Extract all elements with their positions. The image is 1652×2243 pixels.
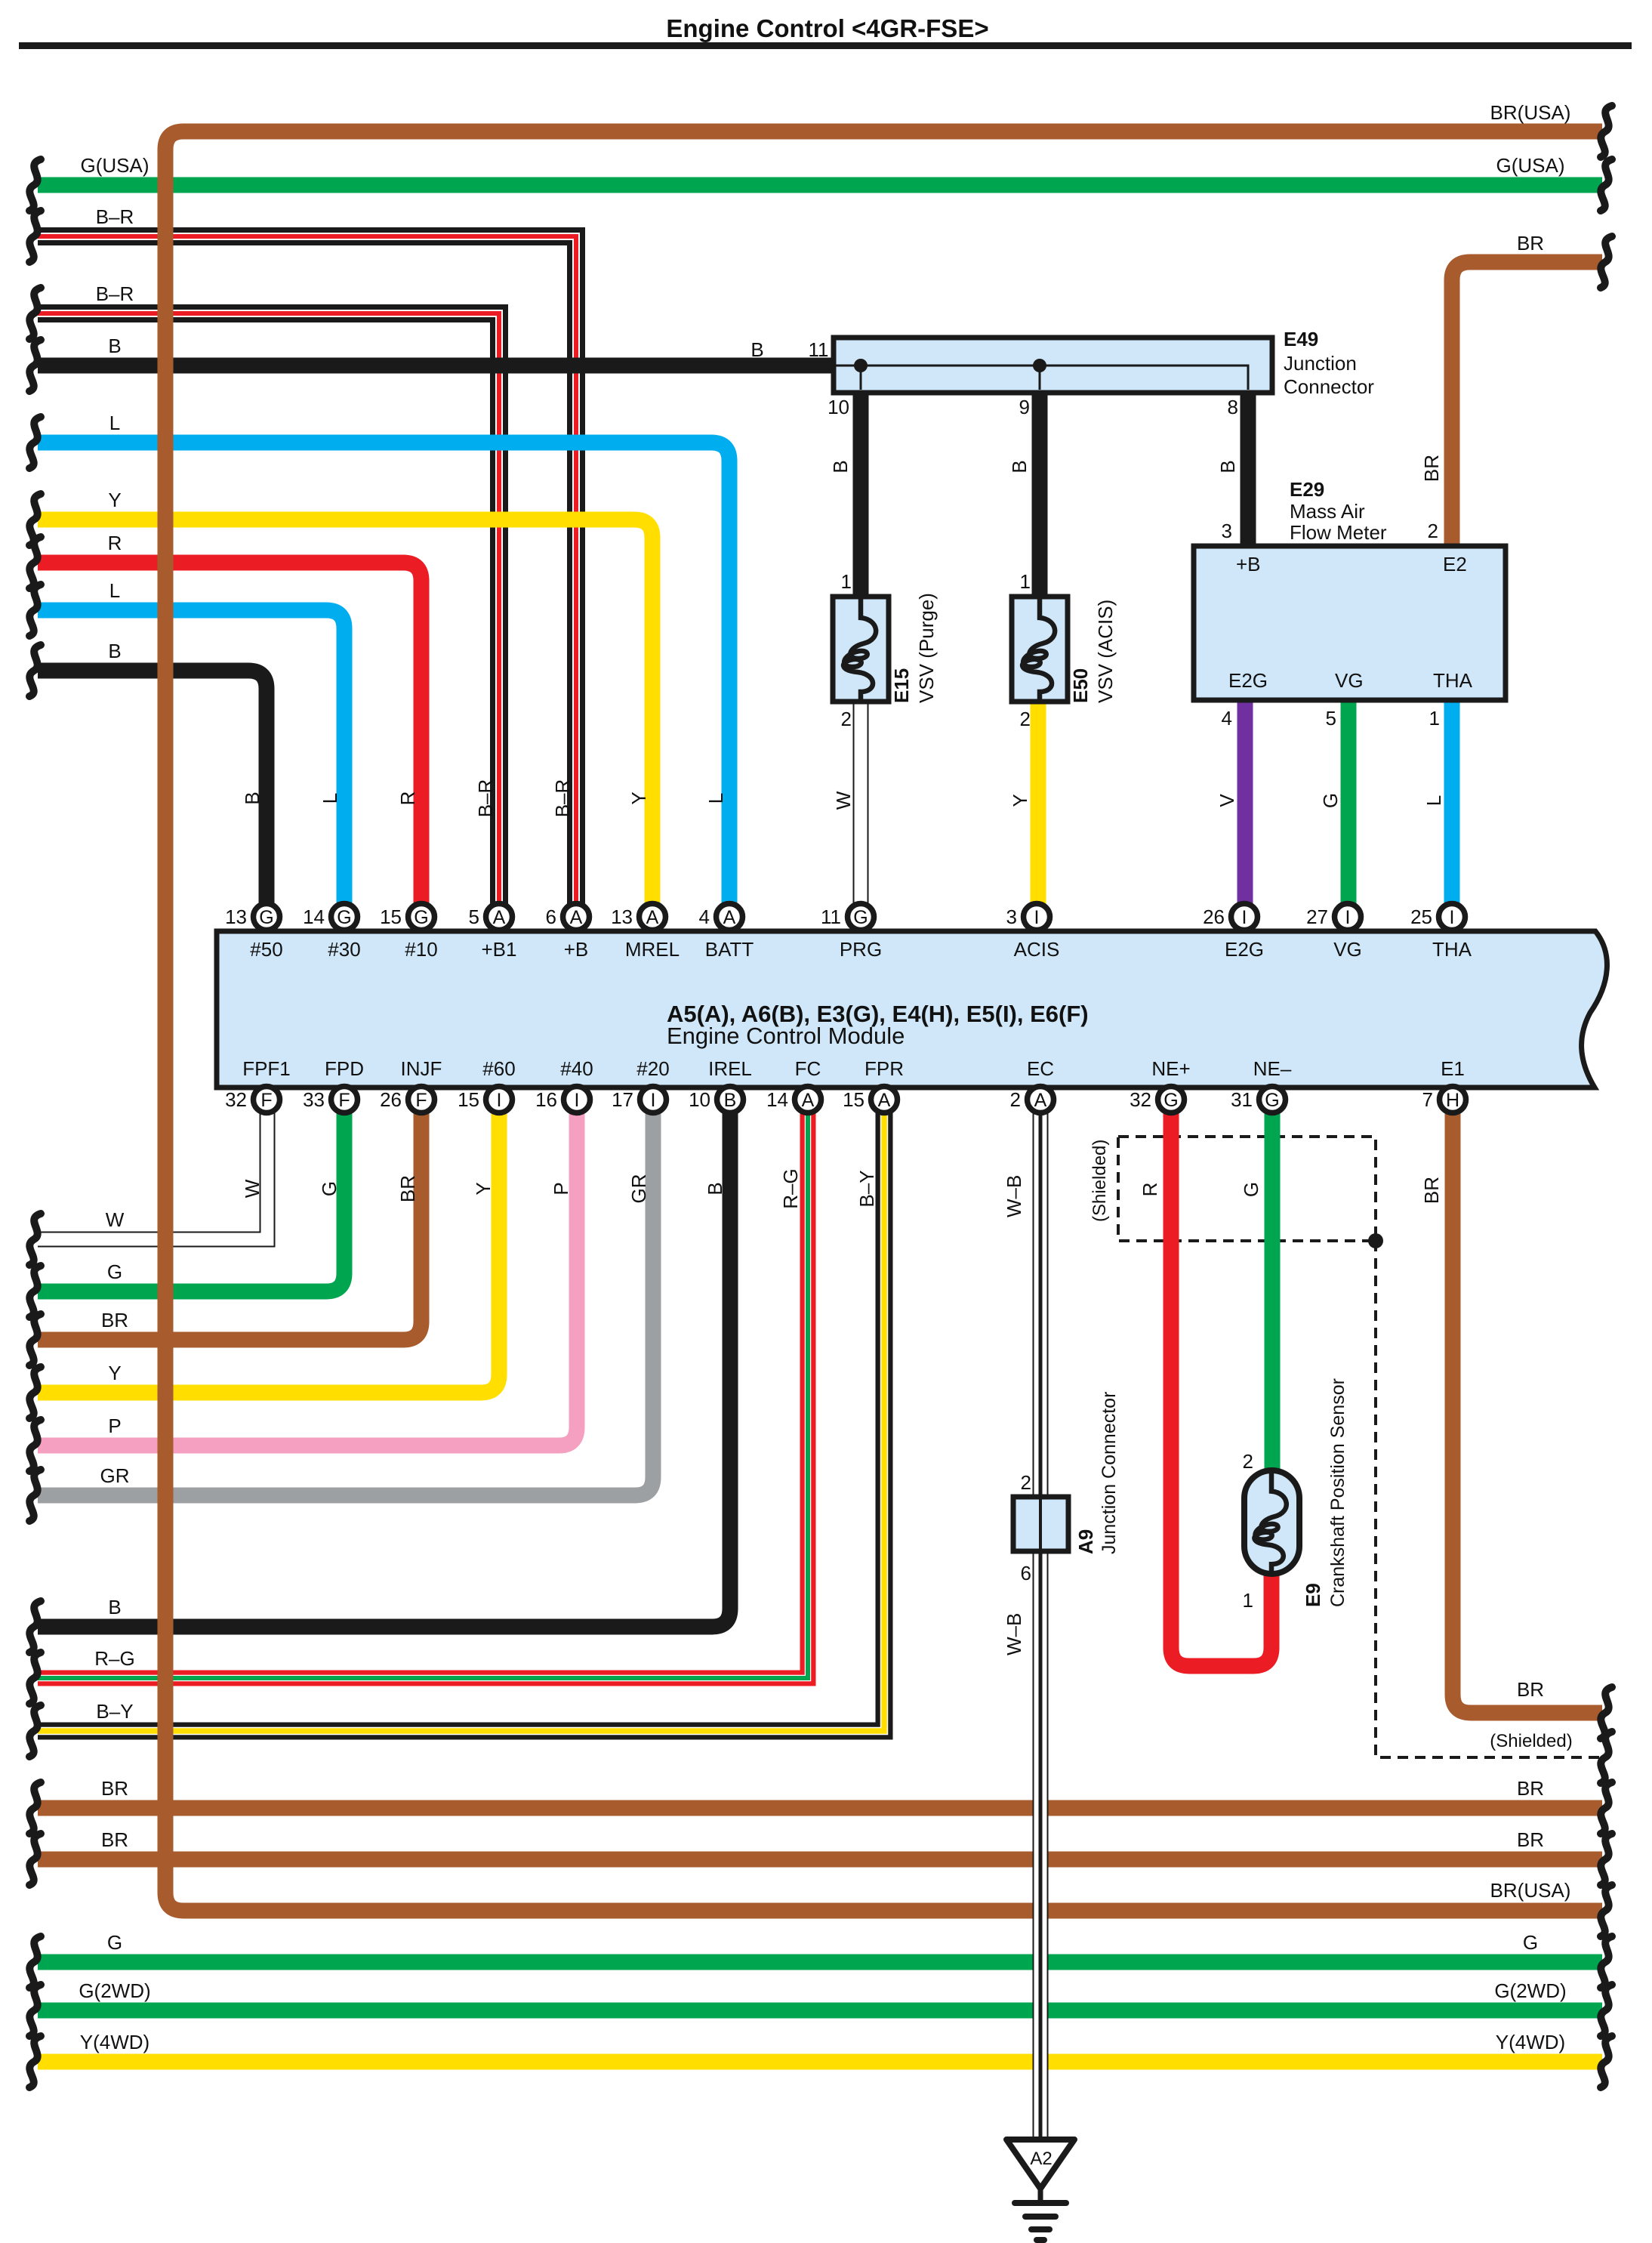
label Y left y1827	[108, 1362, 121, 1384]
VSV E15 box	[833, 597, 889, 702]
label Y left y671	[108, 489, 121, 511]
label BR wire below ECM x549	[396, 1175, 419, 1202]
svg-text:BR: BR	[101, 1309, 128, 1331]
svg-text:25: 25	[1410, 906, 1432, 928]
svg-text:1: 1	[1243, 1589, 1253, 1612]
break symbol left y2222	[29, 1652, 41, 1704]
svg-text:A: A	[570, 907, 583, 928]
svg-text:I: I	[1345, 907, 1351, 928]
svg-text:B: B	[829, 460, 852, 473]
label G(USA) right y228	[1496, 154, 1565, 177]
svg-text:3: 3	[1006, 906, 1017, 928]
break symbol left y2154	[29, 1601, 41, 1652]
label E2G in E29	[1228, 669, 1268, 692]
svg-text:B: B	[724, 1090, 737, 1111]
svg-text:P: P	[108, 1415, 121, 1437]
svg-text:B: B	[108, 1596, 121, 1618]
svg-text:IREL: IREL	[708, 1057, 752, 1080]
svg-text:2: 2	[1243, 1450, 1253, 1473]
svg-text:15: 15	[843, 1088, 865, 1111]
wire W E15 to PRG	[853, 702, 869, 904]
label E9 name	[1302, 1583, 1324, 1607]
label Y wire above ECM x1360	[1009, 794, 1031, 807]
break symbol left y1914	[29, 1420, 41, 1471]
label W wire below ECM x343	[241, 1179, 264, 1198]
svg-text:E50: E50	[1069, 668, 1092, 703]
wire B E49 pin10 to E15	[853, 388, 869, 597]
label R NE+ wire	[1139, 1183, 1161, 1197]
wire L E29 to THA	[1444, 699, 1460, 904]
svg-text:A: A	[493, 907, 506, 928]
svg-text:31: 31	[1231, 1088, 1253, 1111]
svg-text:ACIS: ACIS	[1014, 938, 1060, 961]
svg-text:E49: E49	[1284, 328, 1318, 350]
label E29 name	[1290, 478, 1387, 544]
svg-text:F: F	[260, 1090, 272, 1111]
ECM pin 14 #30 top	[303, 904, 361, 961]
svg-text:L: L	[704, 793, 727, 804]
svg-text:I: I	[497, 1090, 502, 1111]
label A9 name	[1074, 1529, 1097, 1554]
svg-text:R–G: R–G	[94, 1647, 134, 1670]
break symbol left y745	[29, 537, 41, 588]
label G wire below ECM x445	[318, 1181, 341, 1196]
svg-text:P: P	[550, 1182, 572, 1195]
wire Y from #60	[38, 1112, 499, 1393]
svg-text:G(2WD): G(2WD)	[1494, 1979, 1566, 2002]
svg-text:(Shielded): (Shielded)	[1490, 1731, 1572, 1751]
label R wire above ECM x562	[396, 791, 419, 806]
label B 11 at E49	[750, 338, 828, 361]
svg-text:NE+: NE+	[1151, 1057, 1190, 1080]
shield junction dot	[1368, 1233, 1383, 1248]
svg-text:W–B: W–B	[1003, 1613, 1025, 1655]
label G(2WD) left y2645	[79, 1979, 150, 2002]
label G wire above ECM x1771	[1319, 793, 1342, 808]
svg-text:R: R	[1139, 1183, 1161, 1197]
svg-text:11: 11	[821, 906, 841, 928]
svg-text:FC: FC	[795, 1057, 821, 1080]
svg-text:#40: #40	[560, 1057, 593, 1080]
svg-text:GR: GR	[100, 1464, 130, 1487]
svg-text:2: 2	[1020, 708, 1031, 730]
svg-text:G: G	[107, 1260, 122, 1283]
label G left y2581	[107, 1931, 122, 1954]
ECM pin 25 THA top	[1410, 904, 1472, 961]
wire B-R to +B1	[38, 313, 499, 904]
svg-text:#10: #10	[405, 938, 437, 961]
label B left y467	[108, 335, 121, 357]
label BR left y2377	[101, 1777, 128, 1800]
svg-text:G: G	[1319, 793, 1342, 808]
crankshaft position sensor E9	[1244, 1470, 1299, 1574]
svg-text:I: I	[1034, 907, 1040, 928]
label BR E1 wire	[1420, 1177, 1443, 1204]
ECM pin 31 NE– bottom	[1231, 1057, 1292, 1113]
wire R to #10	[38, 563, 421, 904]
svg-text:E15: E15	[890, 668, 913, 703]
svg-text:10: 10	[689, 1088, 710, 1111]
svg-text:+B: +B	[564, 938, 589, 961]
svg-text:Engine Control <4GR-FSE>: Engine Control <4GR-FSE>	[666, 14, 988, 42]
label L wire above ECM x970	[704, 793, 727, 804]
wire R-G from FC	[38, 1112, 808, 1678]
label 9 pin E49	[1019, 396, 1030, 418]
wire B E49 pin8 to E29	[1241, 388, 1256, 546]
wire Y E50 to ACIS	[1031, 702, 1046, 904]
VSV E50 box	[1012, 597, 1068, 702]
label W-B lower	[1003, 1613, 1025, 1655]
svg-text:I: I	[1242, 907, 1247, 928]
label P wire below ECM x752	[550, 1182, 572, 1195]
svg-text:F: F	[415, 1090, 427, 1111]
svg-text:L: L	[319, 793, 341, 804]
label BR right y331	[1517, 232, 1544, 255]
svg-text:G: G	[1523, 1931, 1538, 1954]
ECM pin 32 FPF1 bottom	[225, 1057, 291, 1113]
break symbol right y2530	[1601, 1885, 1612, 1936]
label B–R wire above ECM x767	[551, 779, 574, 818]
svg-text:G: G	[107, 1931, 122, 1954]
break symbol left y1641	[29, 1214, 41, 1265]
label B–R left y296	[96, 205, 134, 228]
wire BR(USA) long	[165, 131, 1602, 1911]
label R left y728	[108, 532, 122, 554]
junction connector E49 box	[834, 338, 1272, 393]
break symbol left y1980	[29, 1470, 41, 1521]
label 1 E9	[1243, 1589, 1253, 1612]
label BR right y2445	[1517, 1828, 1544, 1851]
break symbol left y808	[29, 585, 41, 636]
label BR wire E2	[1420, 455, 1443, 482]
label 3 pin E29	[1222, 520, 1232, 542]
break symbol right y2327	[1601, 1732, 1612, 1783]
label G left y1693	[107, 1260, 122, 1283]
ECM pin 3 ACIS top	[1006, 904, 1060, 961]
label 2 E15	[841, 708, 852, 730]
svg-text:#60: #60	[482, 1057, 515, 1080]
svg-text:7: 7	[1422, 1088, 1433, 1111]
svg-text:H: H	[1446, 1090, 1459, 1111]
ECM pin 7 E1 bottom	[1422, 1057, 1466, 1113]
label BR E1 right	[1517, 1678, 1544, 1701]
svg-text:BR: BR	[1517, 1777, 1544, 1800]
svg-text:G: G	[853, 907, 868, 928]
svg-text:15: 15	[458, 1088, 479, 1111]
svg-text:V: V	[1216, 794, 1238, 807]
wire R NE+ to E9	[1171, 1112, 1271, 1666]
break symbol left y2292	[29, 1705, 41, 1757]
break symbol right y2462	[1601, 1834, 1612, 1885]
svg-text:MREL: MREL	[625, 938, 680, 961]
label Y wire below ECM x649	[472, 1182, 495, 1195]
svg-text:Mass Air: Mass Air	[1290, 500, 1365, 523]
svg-text:+B: +B	[1236, 553, 1261, 575]
break symbol right y2268	[1601, 1687, 1612, 1739]
label B wire below ECM x956	[704, 1182, 726, 1195]
ECM pin 32 NE+ bottom	[1130, 1057, 1191, 1113]
svg-text:#50: #50	[250, 938, 282, 961]
ECM pin 26 E2G top	[1203, 904, 1264, 961]
label 1 E50	[1020, 570, 1031, 593]
break symbol right y2662	[1601, 1985, 1612, 2036]
svg-text:32: 32	[225, 1088, 247, 1111]
label GR left y1963	[100, 1464, 130, 1487]
svg-text:A: A	[723, 907, 736, 928]
ECM pin 4 BATT top	[699, 904, 754, 961]
svg-text:B: B	[241, 791, 264, 804]
label L left y791	[109, 579, 120, 602]
svg-text:8: 8	[1228, 396, 1238, 418]
svg-text:Y: Y	[627, 791, 650, 804]
ground A2	[1006, 2140, 1074, 2240]
break symbol right y245	[1601, 159, 1612, 211]
svg-text:4: 4	[699, 906, 710, 928]
svg-text:NE–: NE–	[1253, 1057, 1292, 1080]
svg-text:3: 3	[1222, 520, 1232, 542]
label 8 pin E49	[1228, 396, 1238, 418]
svg-text:THA: THA	[1432, 938, 1472, 961]
label B wire above ECM x356	[241, 791, 264, 804]
svg-text:B–Y: B–Y	[855, 1170, 878, 1207]
wire BR row1 bottom	[38, 1800, 1602, 1816]
svg-text:Y: Y	[108, 489, 121, 511]
label Y(4WD) left y2713	[80, 2031, 149, 2053]
label BR(USA) right y158	[1490, 101, 1571, 124]
svg-text:G: G	[1163, 1090, 1178, 1111]
svg-text:13: 13	[225, 906, 247, 928]
svg-text:26: 26	[380, 1088, 402, 1111]
svg-text:L: L	[1422, 795, 1445, 806]
svg-text:B–Y: B–Y	[96, 1700, 133, 1723]
wire P from #40	[38, 1112, 577, 1445]
svg-text:26: 26	[1203, 906, 1225, 928]
svg-text:6: 6	[546, 906, 556, 928]
label 6 A9	[1021, 1562, 1031, 1584]
svg-text:Engine Control Module: Engine Control Module	[667, 1023, 905, 1049]
wire B-Y from FPR	[38, 1112, 884, 1731]
svg-text:BR: BR	[101, 1828, 128, 1851]
svg-text:VG: VG	[1335, 669, 1364, 692]
wire Y(4WD) row	[38, 2054, 1602, 2070]
svg-text:B–R: B–R	[96, 282, 134, 305]
shield dashed box around NE wires	[1118, 1137, 1376, 1241]
break symbol right y2598	[1601, 1936, 1612, 1988]
ECM pin 2 EC bottom	[1010, 1057, 1055, 1113]
wire L to #30	[38, 610, 344, 904]
svg-text:FPD: FPD	[325, 1057, 364, 1080]
svg-text:B: B	[1216, 460, 1239, 473]
svg-text:Connector: Connector	[1284, 375, 1374, 398]
shield drain dashed line	[1376, 1241, 1602, 1757]
svg-text:B–R: B–R	[474, 779, 497, 818]
label G(USA) left y228	[81, 154, 149, 177]
break symbol left y1710	[29, 1266, 41, 1317]
label 1 E15	[841, 570, 852, 593]
label THA in E29	[1433, 669, 1473, 692]
label (Shielded) vertical	[1090, 1140, 1110, 1222]
svg-text:A: A	[878, 1090, 891, 1111]
svg-text:E9: E9	[1302, 1583, 1324, 1607]
ECM pin 6 +B top	[546, 904, 590, 961]
svg-text:Y(4WD): Y(4WD)	[80, 2031, 149, 2053]
mass air flow meter E29 box	[1194, 546, 1506, 700]
ECM pin 10 IREL bottom	[689, 1057, 752, 1113]
svg-text:R: R	[108, 532, 122, 554]
break symbol left y586	[29, 417, 41, 468]
svg-text:13: 13	[611, 906, 633, 928]
svg-text:Junction Connector: Junction Connector	[1099, 1392, 1120, 1554]
svg-text:FPR: FPR	[865, 1057, 904, 1080]
label B–Y left y2275	[96, 1700, 133, 1723]
ECM pin 16 #40 bottom	[535, 1057, 593, 1113]
label B wire pin10	[829, 460, 852, 473]
svg-text:L: L	[109, 412, 120, 434]
svg-text:R: R	[396, 791, 419, 806]
label V wire above ECM x1634	[1216, 794, 1238, 807]
wire G row bottom	[38, 1955, 1602, 1970]
svg-text:14: 14	[766, 1088, 788, 1111]
wire BR from INJF	[38, 1112, 421, 1340]
ECM pin 13 #50 top	[225, 904, 283, 961]
wire W-B EC to ground A2	[1033, 1112, 1049, 2142]
label ECM title	[667, 1001, 1089, 1049]
svg-text:BR: BR	[1420, 1177, 1443, 1204]
svg-text:Y: Y	[1009, 794, 1031, 807]
svg-text:10: 10	[828, 396, 849, 418]
label G NE- wire	[1240, 1182, 1262, 1197]
label 4 pin E29	[1222, 707, 1232, 730]
label B–R left y398	[96, 282, 134, 305]
label E2 in E29	[1443, 553, 1467, 575]
break symbol left y2462	[29, 1834, 41, 1885]
svg-text:FPF1: FPF1	[242, 1057, 291, 1080]
svg-text:6: 6	[1021, 1562, 1031, 1584]
wire R inside shield redraw	[1163, 1129, 1179, 1254]
wire GR from #20	[38, 1112, 653, 1495]
break symbol right y2730	[1601, 2036, 1612, 2087]
ECM pin 15 #10 top	[380, 904, 438, 961]
break symbol left y1844	[29, 1367, 41, 1418]
svg-text:32: 32	[1130, 1088, 1151, 1111]
svg-text:W: W	[106, 1208, 125, 1231]
label B–R wire above ECM x665	[474, 779, 497, 818]
svg-text:Crankshaft Position Sensor: Crankshaft Position Sensor	[1327, 1378, 1348, 1607]
svg-text:1: 1	[841, 570, 852, 593]
svg-text:B–R: B–R	[96, 205, 134, 228]
svg-text:I: I	[651, 1090, 656, 1111]
svg-text:G: G	[414, 907, 428, 928]
ECM pin 17 #20 bottom	[612, 1057, 670, 1113]
label G(2WD) right y2645	[1494, 1979, 1566, 2002]
svg-text:33: 33	[303, 1088, 325, 1111]
wire V E29 to E2G	[1237, 699, 1253, 904]
svg-text:Y(4WD): Y(4WD)	[1496, 2031, 1565, 2053]
wire B to #50	[38, 671, 267, 904]
break symbol left y2598	[29, 1936, 41, 1988]
svg-text:E1: E1	[1441, 1057, 1465, 1080]
ECM pin 11 PRG top	[821, 904, 882, 961]
label G right y2581	[1523, 1931, 1538, 1954]
svg-text:27: 27	[1306, 906, 1328, 928]
svg-text:2: 2	[1021, 1471, 1031, 1494]
svg-text:Y: Y	[108, 1362, 121, 1384]
ECM pin 14 FC bottom	[766, 1057, 821, 1113]
svg-text:B: B	[704, 1182, 726, 1195]
label E15 name	[890, 668, 913, 703]
svg-text:G: G	[259, 907, 273, 928]
svg-text:5: 5	[469, 906, 479, 928]
label A9 junction connector	[1099, 1392, 1120, 1554]
svg-text:G: G	[318, 1181, 341, 1196]
label L wire above ECM x459	[319, 793, 341, 804]
wire G(USA) row	[38, 177, 1602, 193]
ECM pin 15 #60 bottom	[458, 1057, 516, 1113]
svg-text:BR: BR	[1420, 455, 1443, 482]
title Engine Control 4GR-FSE	[19, 14, 1632, 49]
ECM pin 33 FPD bottom	[303, 1057, 364, 1113]
break symbol right y174	[1601, 106, 1612, 157]
svg-text:G: G	[1240, 1182, 1262, 1197]
wire B E49 pin9 to E50	[1032, 388, 1048, 597]
svg-text:VSV (ACIS): VSV (ACIS)	[1094, 600, 1117, 703]
wire G NE- to E9	[1265, 1112, 1281, 1473]
label L left y569	[109, 412, 120, 434]
svg-text:A: A	[802, 1090, 815, 1111]
svg-text:4: 4	[1222, 707, 1232, 730]
svg-text:W: W	[241, 1179, 264, 1198]
engine control module ECM box	[217, 931, 1607, 1088]
label GR wire below ECM x855	[627, 1174, 650, 1204]
label E50 name	[1069, 668, 1092, 703]
svg-text:A2: A2	[1030, 2149, 1052, 2169]
label +B in E29	[1236, 553, 1261, 575]
label 2 E50	[1020, 708, 1031, 730]
svg-text:5: 5	[1326, 707, 1336, 730]
svg-text:I: I	[575, 1090, 580, 1111]
svg-text:GR: GR	[627, 1174, 650, 1204]
svg-text:E2: E2	[1443, 553, 1467, 575]
label B–Y wire below ECM x1157	[855, 1170, 878, 1207]
break symbol right y347	[1601, 236, 1612, 288]
svg-text:Flow Meter: Flow Meter	[1290, 521, 1387, 544]
svg-text:BR: BR	[101, 1777, 128, 1800]
svg-text:#20: #20	[636, 1057, 669, 1080]
wire BR row2 bottom	[38, 1852, 1602, 1868]
svg-text:L: L	[109, 579, 120, 602]
svg-text:BR: BR	[1517, 232, 1544, 255]
svg-text:VSV (Purge): VSV (Purge)	[915, 593, 938, 703]
svg-text:Junction: Junction	[1284, 352, 1357, 375]
svg-text:15: 15	[380, 906, 402, 928]
label W wire above ECM x1126	[832, 791, 855, 810]
svg-text:INJF: INJF	[401, 1057, 442, 1080]
junction connector A9 box	[1013, 1497, 1068, 1551]
label B wire pin9	[1008, 460, 1031, 473]
svg-text:E2G: E2G	[1225, 938, 1264, 961]
label Y(4WD) right y2713	[1496, 2031, 1565, 2053]
label 2 E9	[1243, 1450, 1253, 1473]
svg-text:9: 9	[1019, 396, 1030, 418]
label (Shielded) horizontal	[1490, 1731, 1572, 1751]
break symbol left y2394	[29, 1782, 41, 1834]
svg-text:I: I	[1450, 907, 1455, 928]
label BR(USA) right y2512	[1490, 1879, 1571, 1902]
svg-text:2: 2	[1010, 1088, 1021, 1111]
ECM pin 5 +B1 top	[469, 904, 517, 961]
label R–G wire below ECM x1056	[779, 1168, 802, 1208]
svg-text:BR: BR	[1517, 1828, 1544, 1851]
